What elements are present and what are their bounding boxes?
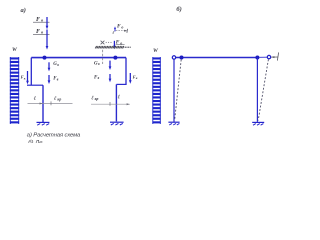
left column step xyxy=(27,84,43,86)
fixed base left column part b xyxy=(168,122,179,125)
svg-text:к: к xyxy=(136,76,138,80)
node dot left (filled) xyxy=(180,56,184,60)
left column upper part xyxy=(30,58,32,86)
svg-text:к: к xyxy=(24,76,26,80)
svg-text:а) Расчетная схема: а) Расчетная схема xyxy=(27,132,81,138)
right column part b xyxy=(256,58,258,122)
right column step xyxy=(116,83,126,85)
crane beam hatch band xyxy=(95,46,124,48)
hinge ring left (open circle) xyxy=(172,56,175,59)
force arrow Fo2 (blue, down) xyxy=(46,30,49,50)
svg-text:б): б) xyxy=(176,6,181,13)
svg-text:F: F xyxy=(36,29,40,35)
crane force arrow F1 right (blue, down) xyxy=(129,73,132,84)
force label Fo (above crane band) xyxy=(116,40,125,46)
force label Fo (top of right column) xyxy=(117,24,123,30)
crane band right dashes xyxy=(125,46,131,48)
right column upper part xyxy=(125,58,127,85)
wind load ladder strip (part b) xyxy=(152,57,160,124)
eccentricity dimension leader with right arrow and tick xyxy=(116,29,128,33)
force arrow Fo3 (blue, down, onto crane band) xyxy=(113,41,116,49)
force label Fo (top left, second) xyxy=(33,29,50,35)
dotted leader from x mark xyxy=(106,42,112,43)
node dot left on beam xyxy=(43,56,47,60)
small blue up arrow at Fo top xyxy=(114,26,116,31)
dashed axis line through beam (right column) xyxy=(102,50,104,64)
svg-text:о: о xyxy=(121,24,123,29)
fixed base right column xyxy=(110,122,124,125)
fixed base left column xyxy=(37,122,50,125)
svg-text:кр: кр xyxy=(95,97,99,101)
dimension line ekr / e (right column) xyxy=(91,94,130,105)
force label Fo (top left, first) xyxy=(33,17,50,23)
left column lower part xyxy=(42,85,44,122)
force arrow Fo1 (blue, down) xyxy=(46,17,49,29)
beam extension to displaced ring xyxy=(259,56,267,58)
force arrow Fv right (blue, down) xyxy=(109,74,112,82)
beam part b xyxy=(176,57,258,59)
node dot right on beam xyxy=(113,56,117,60)
node dot right (filled) xyxy=(255,56,259,60)
svg-text:кр: кр xyxy=(57,98,61,102)
force arrow Fv left (blue, down) xyxy=(48,75,51,84)
displacement dimension (delta) at top right xyxy=(271,52,278,60)
svg-text:ℓ: ℓ xyxy=(112,30,114,35)
deflected column left (dashed) xyxy=(175,60,182,121)
left column part b xyxy=(173,59,175,122)
fixed base right column part b xyxy=(252,122,264,125)
force arrow Gv right (blue, down) xyxy=(109,61,112,70)
beam (part a top girder) xyxy=(31,57,126,59)
eccentricity mark x (cross) xyxy=(101,41,105,45)
wind load ladder strip (part a) xyxy=(10,57,19,124)
crane band baseline xyxy=(95,47,124,49)
force arrow Gv left (blue, down) xyxy=(48,62,51,71)
right column lower part xyxy=(115,84,117,121)
crane force arrow F1 left (blue, down) xyxy=(26,71,29,84)
displaced ring right (open circle) xyxy=(267,55,270,58)
svg-text:б) Де: б) Де xyxy=(28,140,43,143)
deflected column right (dashed) xyxy=(258,59,268,120)
dimension line e / ekr (left column) xyxy=(28,96,73,105)
svg-text:а): а) xyxy=(21,7,26,14)
svg-text:F: F xyxy=(117,24,121,30)
